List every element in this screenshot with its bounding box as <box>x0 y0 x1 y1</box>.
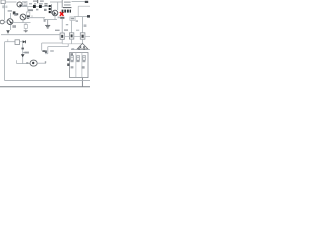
connector pads P1 <box>49 4 52 13</box>
capacitor C3 plates <box>44 3 47 6</box>
wire rail x62 upper <box>61 0 63 8</box>
wire rail x71.5 <box>71 21 73 33</box>
wire bottom bus 1 <box>5 80 90 82</box>
labels right of Q1 top <box>8 10 19 15</box>
wire rail x62 mid <box>61 19 63 33</box>
label x83 y24 <box>84 24 87 27</box>
wire y46.5 to x68 <box>48 44 68 47</box>
ground GND2 small <box>24 31 28 33</box>
IC U1 (big box) <box>70 53 88 78</box>
label small x76 y20 <box>76 20 78 22</box>
label dash x66 y24 <box>66 24 68 25</box>
label row top y0 <box>33 0 44 3</box>
wire y63.6 to motor <box>17 62 31 63</box>
labels above resistors <box>55 29 79 31</box>
fuse F1 marks on left rail <box>2 5 7 8</box>
wire rail x82.5 <box>82 17 84 33</box>
wire main bus y34.6 <box>1 34 60 36</box>
label RLA box <box>70 17 75 20</box>
transistor Q1 <box>7 19 13 25</box>
capacitor C1 (black block) <box>33 5 36 8</box>
transistor Q3 <box>52 10 58 16</box>
wire Q3 emitter <box>44 16 57 22</box>
switch S1 box with label <box>23 1 27 6</box>
U1 contact boxes <box>71 56 86 61</box>
buzzer LS1 (triangle) <box>77 43 88 49</box>
diode D2 vertical with label <box>21 48 29 58</box>
wire y41.6 left <box>5 39 15 42</box>
diode D1 on wire (dark arrow) <box>20 40 26 43</box>
resistor R2 <box>69 33 73 39</box>
label under X (dark) <box>60 17 64 19</box>
wire corner x16.6 <box>16 60 18 63</box>
wire mid bus y22.6 <box>13 22 31 24</box>
wire rail x62 lower <box>61 39 63 43</box>
wire Q1 collector up <box>9 13 11 19</box>
U1 text marks row1 <box>71 57 85 59</box>
label block U2 (two text rows with underline) <box>63 1 71 7</box>
label text right of Q3 <box>58 17 60 19</box>
U1 text marks row3 <box>71 66 85 68</box>
wire y16.5 to right edge <box>74 15 90 18</box>
label row y3 <box>29 3 43 4</box>
resistor R3 <box>80 33 85 39</box>
U1 pin labels left edge <box>67 58 69 66</box>
marker X1 (red cross annotation) <box>60 12 64 16</box>
terminal T1 (left oval) <box>0 20 7 24</box>
wire upper bus y6.5 <box>22 6 49 8</box>
pin numbers row (dark text) <box>62 10 71 13</box>
wire top right with terminal arrow <box>72 1 89 3</box>
U1 label F <box>70 53 73 55</box>
motor M2 (oval with dot) <box>30 60 37 66</box>
label row y9 <box>28 9 47 11</box>
ground arrow on bus <box>6 31 9 34</box>
wire box A corner <box>42 43 63 52</box>
wire y36.5 right section <box>64 36 90 38</box>
wire motor right <box>37 61 46 63</box>
U1 text marks row2 <box>70 60 85 62</box>
relay K1 small box <box>26 7 29 16</box>
label right of Q2 (dark) <box>27 15 30 18</box>
wire notch x47.7 <box>45 47 54 54</box>
connector J1 (top-left box) <box>1 0 5 4</box>
wire bus y44 right <box>62 43 82 45</box>
wire top bus middle <box>50 1 62 3</box>
wire bottom bus 2 <box>0 86 90 88</box>
wire y49.4 <box>71 48 90 50</box>
wire corner x78 <box>78 6 90 16</box>
wire drop to Q3 <box>57 2 59 10</box>
wire branch x22.6 down <box>22 43 24 63</box>
wire rail x82.5 to triangle <box>82 39 84 44</box>
wire Q2 to bus <box>22 20 24 23</box>
U1 internal divider right <box>81 53 83 78</box>
wire y17.6 <box>28 15 45 19</box>
resistor R1 <box>60 33 64 39</box>
lamp M1 (circle with dot) <box>17 2 22 7</box>
wire rail x71.5 lower <box>71 39 73 44</box>
wire left rail upper <box>4 4 6 21</box>
wire x82.5 below box <box>81 78 83 87</box>
capacitor C2 (black block) <box>39 5 42 8</box>
wire left rail lower <box>4 42 6 81</box>
transistor Q2 <box>20 14 26 20</box>
U1 internal divider left <box>75 53 77 78</box>
wire top bus left <box>5 1 16 3</box>
ground GND1 <box>45 20 50 28</box>
capacitor C4 under bus <box>24 23 27 30</box>
relay contact box K1a <box>15 40 20 45</box>
label left of Q2 <box>14 14 17 16</box>
wire Q1 emitter down <box>10 25 16 31</box>
